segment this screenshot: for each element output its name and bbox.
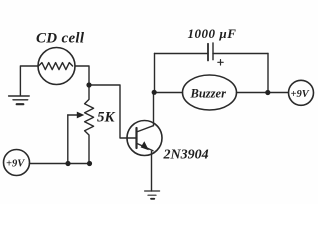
svg-text:+9V: +9V: [6, 159, 25, 170]
svg-text:2N3904: 2N3904: [163, 148, 209, 163]
svg-text:Buzzer: Buzzer: [190, 87, 227, 101]
svg-text:+9V: +9V: [291, 89, 310, 100]
svg-text:1000 µF: 1000 µF: [188, 26, 237, 41]
svg-text:5K: 5K: [97, 110, 116, 126]
svg-text:CD cell: CD cell: [36, 31, 85, 47]
